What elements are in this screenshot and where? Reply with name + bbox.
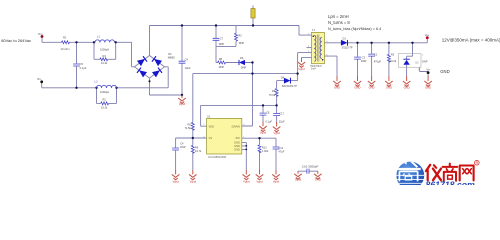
svg-text:C16 3300pF: C16 3300pF	[302, 164, 319, 168]
svg-text:T1: T1	[312, 28, 316, 32]
svg-text:GND: GND	[234, 141, 240, 145]
svg-text:Vin-: Vin-	[37, 77, 42, 81]
svg-text:DNP: DNP	[241, 66, 247, 70]
svg-text:C17: C17	[279, 111, 284, 115]
svg-text:UCC28910DR: UCC28910DR	[208, 155, 226, 159]
svg-text:Vgnd: Vgnd	[273, 180, 280, 184]
svg-text:1.00k: 1.00k	[262, 149, 269, 153]
svg-text:GND: GND	[355, 85, 361, 89]
svg-text:Vgnd: Vgnd	[295, 178, 302, 182]
svg-text:R12: R12	[262, 146, 267, 150]
svg-text:12V@350mA (max = 400mA): 12V@350mA (max = 400mA)	[442, 38, 500, 43]
svg-text:Vo-: Vo-	[427, 67, 431, 71]
svg-text:10µF: 10µF	[185, 66, 191, 70]
svg-text:Vgnd: Vgnd	[256, 180, 263, 184]
svg-text:Vgnd: Vgnd	[273, 131, 280, 135]
svg-text:GND: GND	[386, 85, 392, 89]
svg-text:C2: C2	[374, 53, 378, 57]
svg-text:Vgnd: Vgnd	[298, 67, 305, 71]
svg-text:22µF: 22µF	[279, 119, 285, 123]
svg-text:R4: R4	[103, 54, 107, 58]
svg-text:C8: C8	[266, 110, 270, 114]
svg-text:L1: L1	[97, 34, 101, 38]
svg-text:0.1µF: 0.1µF	[265, 119, 272, 123]
svg-text:N_turns = 8: N_turns = 8	[328, 20, 350, 25]
svg-text:75.0k: 75.0k	[269, 93, 276, 97]
svg-text:GND: GND	[425, 85, 431, 89]
svg-text:Vgnd: Vgnd	[260, 131, 267, 135]
svg-text:BAV21WS-TP: BAV21WS-TP	[282, 85, 297, 88]
svg-text:C4: C4	[180, 142, 184, 146]
svg-text:10.0k: 10.0k	[390, 59, 397, 63]
svg-text:80Vac to 264Vac: 80Vac to 264Vac	[1, 38, 31, 43]
svg-text:D1: D1	[343, 36, 347, 40]
svg-text:MB6S: MB6S	[168, 55, 175, 59]
svg-text:71.5k: 71.5k	[184, 126, 191, 130]
svg-text:GND: GND	[234, 144, 240, 148]
svg-text:DRAIN: DRAIN	[232, 124, 240, 128]
svg-text:1000µH: 1000µH	[100, 47, 109, 51]
svg-text:DNP: DNP	[180, 145, 186, 149]
svg-text:10.2k: 10.2k	[101, 61, 108, 65]
svg-text:DNP: DNP	[219, 42, 225, 46]
svg-text:R6: R6	[195, 145, 199, 149]
svg-text:C7: C7	[220, 37, 224, 41]
svg-text:Vgnd: Vgnd	[190, 180, 197, 184]
svg-text:U1: U1	[207, 114, 211, 118]
svg-text:R8: R8	[219, 57, 223, 61]
svg-text:IPK: IPK	[236, 136, 241, 140]
svg-text:Vgnd: Vgnd	[172, 180, 179, 184]
svg-text:VS: VS	[209, 136, 213, 140]
svg-text:C4: C4	[185, 57, 189, 61]
svg-text:Lpri = 2mH: Lpri = 2mH	[328, 14, 349, 19]
svg-text:DNP: DNP	[219, 65, 225, 69]
svg-text:861718.com: 861718.com	[426, 179, 476, 185]
svg-text:1000µH: 1000µH	[100, 90, 109, 94]
svg-text:DNP: DNP	[239, 41, 245, 45]
svg-text:DNP: DNP	[361, 59, 367, 63]
svg-text:R2: R2	[103, 97, 107, 101]
svg-text:10 ohm: 10 ohm	[61, 47, 71, 51]
svg-text:GND: GND	[234, 148, 240, 152]
svg-text:GND: GND	[440, 69, 449, 74]
svg-text:10.2k: 10.2k	[101, 105, 108, 109]
svg-text:C14: C14	[278, 146, 283, 150]
svg-text:470µF: 470µF	[374, 59, 382, 63]
svg-text:D4: D4	[281, 75, 285, 79]
svg-text:2mH: 2mH	[311, 68, 316, 71]
svg-text:R5: R5	[187, 122, 191, 126]
svg-text:C3: C3	[362, 56, 366, 60]
svg-text:R1: R1	[63, 36, 67, 40]
svg-text:GND: GND	[334, 85, 340, 89]
svg-text:L2: L2	[95, 79, 99, 83]
svg-text:R2: R2	[238, 33, 242, 37]
svg-text:GND: GND	[369, 85, 375, 89]
svg-text:0.1µF: 0.1µF	[80, 66, 87, 70]
svg-text:GND: GND	[315, 178, 321, 182]
svg-text:DNP: DNP	[422, 60, 428, 64]
svg-text:GND: GND	[404, 85, 410, 89]
svg-text:VDD: VDD	[209, 124, 215, 128]
svg-text:Vin+: Vin+	[38, 32, 44, 36]
svg-text:Vo+: Vo+	[425, 33, 430, 37]
svg-text:24.7k: 24.7k	[195, 149, 202, 153]
svg-text:N_turns_bias (Npri/Nbias) = 6.: N_turns_bias (Npri/Nbias) = 6.4	[328, 27, 381, 31]
svg-text:C5: C5	[80, 62, 84, 66]
svg-text:SS110-TP: SS110-TP	[342, 47, 353, 50]
svg-text:NC: NC	[415, 62, 419, 65]
svg-text:Vgnd: Vgnd	[179, 102, 186, 106]
svg-text:D2: D2	[168, 52, 172, 56]
svg-text:R3: R3	[391, 52, 395, 56]
svg-text:R9: R9	[272, 89, 276, 93]
svg-text:D6: D6	[240, 56, 244, 60]
svg-text:Vgnd: Vgnd	[243, 180, 250, 184]
svg-text:47µF: 47µF	[278, 150, 284, 154]
